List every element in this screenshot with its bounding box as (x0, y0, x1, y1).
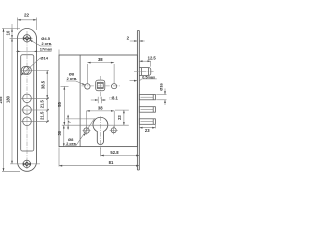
svg-text:205: 205 (0, 96, 3, 104)
svg-text:30: 30 (57, 130, 62, 135)
svg-text:55: 55 (57, 102, 62, 107)
svg-text:180: 180 (6, 95, 11, 103)
svg-text:21.5: 21.5 (40, 99, 45, 108)
svg-text:7: 7 (66, 121, 71, 123)
svg-text:17max: 17max (40, 47, 53, 52)
svg-text:22: 22 (24, 13, 30, 18)
svg-text:10: 10 (6, 30, 11, 35)
svg-text:Ø8: Ø8 (69, 71, 75, 76)
svg-text:2 отв.: 2 отв. (42, 42, 53, 46)
svg-text:21.5: 21.5 (40, 111, 45, 120)
svg-text:12.5: 12.5 (148, 55, 157, 60)
svg-text:Ø4.5: Ø4.5 (41, 36, 50, 41)
svg-text:38: 38 (98, 106, 103, 111)
svg-text:52.8: 52.8 (110, 150, 119, 155)
svg-text:Ø14: Ø14 (40, 55, 48, 60)
svg-text:2 отв.: 2 отв. (67, 77, 78, 81)
svg-text:23: 23 (117, 115, 122, 120)
svg-text:23: 23 (145, 128, 150, 133)
svg-text:□8.1: □8.1 (110, 95, 119, 100)
svg-text:38.5: 38.5 (40, 80, 45, 89)
svg-text:38: 38 (98, 57, 103, 62)
svg-text:Ø16: Ø16 (159, 82, 164, 90)
svg-text:81: 81 (109, 160, 114, 165)
